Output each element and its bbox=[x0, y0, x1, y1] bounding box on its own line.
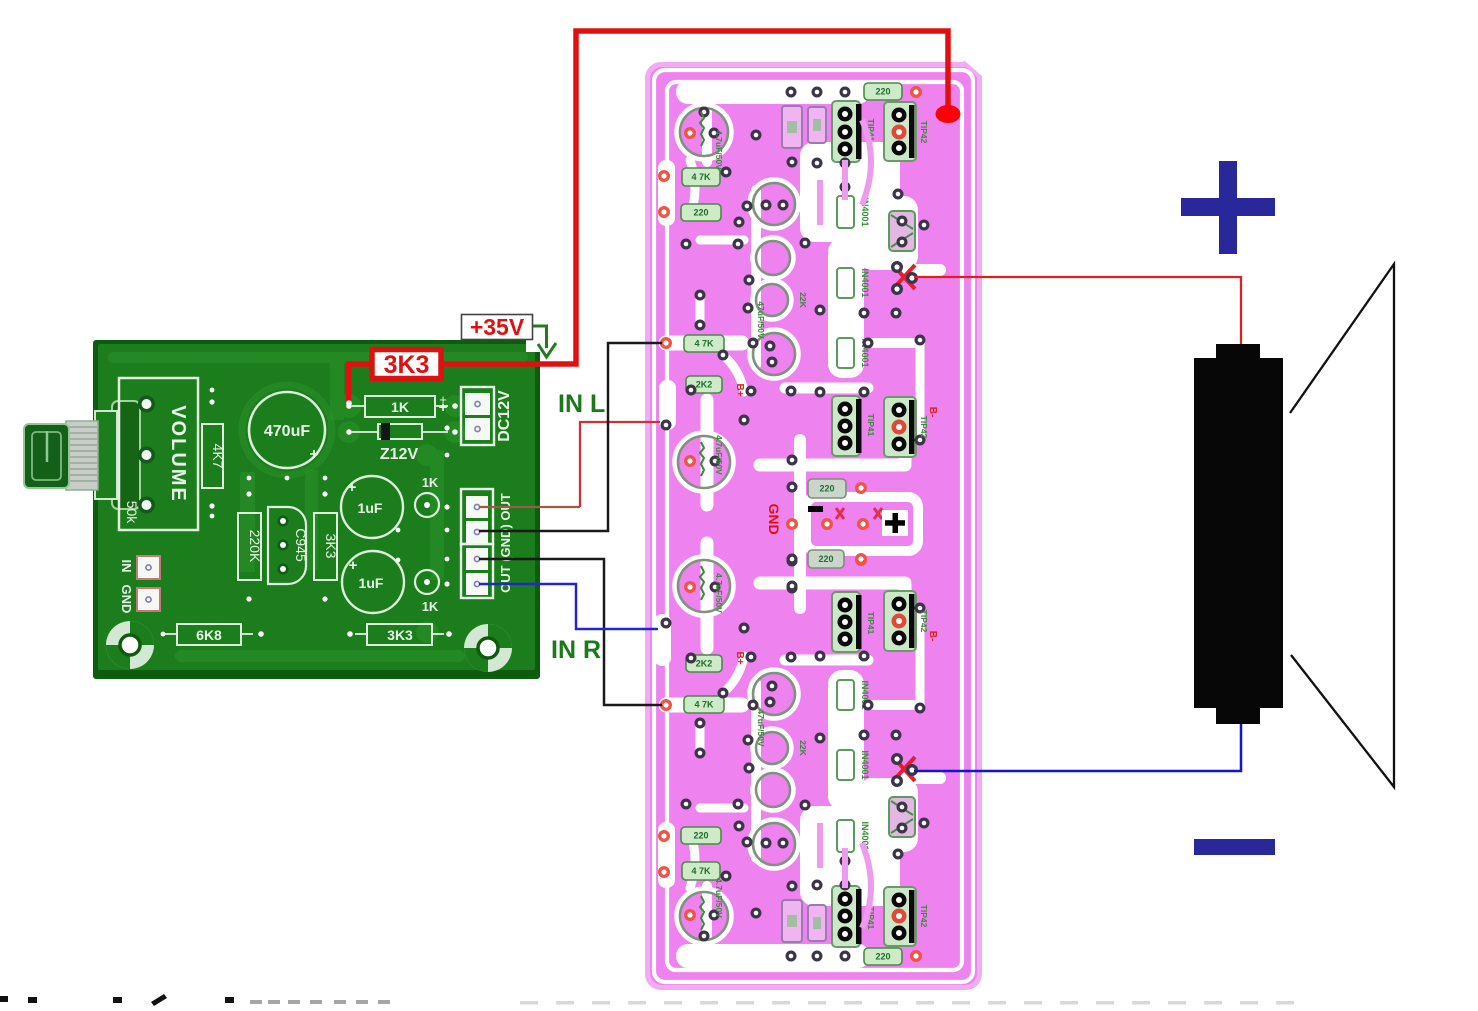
svg-text:IN R: IN R bbox=[551, 636, 601, 664]
svg-text:B-: B- bbox=[927, 631, 938, 642]
capacitor 470uF bbox=[249, 392, 325, 468]
svg-text:IN: IN bbox=[119, 560, 134, 573]
svg-text:4 7K: 4 7K bbox=[694, 700, 714, 710]
pink amplifier PCB board bbox=[645, 60, 984, 990]
svg-text:4.7uF/50V: 4.7uF/50V bbox=[714, 573, 724, 613]
green preamp PCB board bbox=[93, 340, 540, 679]
wire L ground (black) bbox=[479, 343, 662, 531]
wire speaker + (red) bbox=[914, 277, 1241, 346]
svg-text:4 7K: 4 7K bbox=[691, 172, 711, 182]
copper traces over routed areas bbox=[820, 120, 871, 928]
resistor 1K (mid lower) bbox=[415, 570, 439, 614]
svg-text:+: + bbox=[439, 392, 447, 407]
svg-text:4.7uF/50V: 4.7uF/50V bbox=[714, 130, 724, 170]
potentiometer VR1 50K volume bbox=[24, 401, 140, 509]
connector OUT (GND) OUT bbox=[444, 489, 513, 598]
left edge wire pad slots bbox=[658, 160, 675, 226]
speaker terminal - bbox=[1194, 839, 1275, 855]
wire speaker - (blue) bbox=[914, 720, 1241, 771]
svg-text:TIP42: TIP42 bbox=[919, 121, 929, 144]
svg-text:B+: B+ bbox=[734, 383, 745, 396]
resistor 1K (top) bbox=[346, 396, 458, 417]
svg-text:4.7uF/50V: 4.7uF/50V bbox=[714, 878, 724, 918]
svg-text:+: + bbox=[349, 557, 358, 574]
red marked pads bbox=[658, 86, 922, 962]
svg-text:C945: C945 bbox=[293, 528, 309, 562]
minus mark (speaker - net) bbox=[808, 506, 823, 512]
svg-text:4.7uF/50V: 4.7uF/50V bbox=[714, 435, 724, 475]
mounting hole right bbox=[464, 624, 512, 672]
diode pair (right column) bbox=[889, 211, 915, 251]
svg-text:1K: 1K bbox=[422, 475, 439, 490]
svg-text:47uF/50V: 47uF/50V bbox=[756, 301, 766, 339]
resistor 1K (mid upper) bbox=[415, 475, 439, 517]
resistor 6K8 bbox=[165, 624, 264, 645]
svg-text:47uF/50V: 47uF/50V bbox=[756, 709, 766, 747]
svg-text:4 7K: 4 7K bbox=[694, 339, 714, 349]
resistor 4K7 bbox=[202, 399, 226, 508]
svg-text:1K: 1K bbox=[422, 599, 439, 614]
output transistors (circle outlines) bbox=[675, 105, 798, 943]
svg-text:Z12V: Z12V bbox=[380, 446, 419, 463]
wire R ground (black) bbox=[479, 559, 662, 705]
svg-text:GND: GND bbox=[766, 503, 782, 534]
green PCB stray lead pads bbox=[161, 388, 450, 637]
svg-text:220: 220 bbox=[818, 554, 833, 564]
small resistors (violet outline) bbox=[782, 106, 802, 148]
svg-text:VOLUME: VOLUME bbox=[167, 405, 189, 503]
diodes IN4001 bbox=[837, 196, 854, 228]
TIP power transistors Q (3-pad groups) bbox=[832, 101, 862, 162]
svg-text:220: 220 bbox=[875, 952, 890, 962]
svg-text:50k: 50k bbox=[124, 501, 140, 525]
svg-text:2K2: 2K2 bbox=[696, 659, 713, 669]
connector IN GND bbox=[119, 556, 160, 613]
arrow from +35V to board (green) bbox=[533, 326, 547, 348]
svg-text:IN4001: IN4001 bbox=[860, 268, 870, 297]
potentiometer silkscreen VOLUME box bbox=[119, 378, 198, 530]
svg-text:IN L: IN L bbox=[558, 390, 605, 418]
svg-text:3K3: 3K3 bbox=[387, 627, 413, 643]
svg-text:TIP42: TIP42 bbox=[919, 416, 929, 439]
svg-text:1uF: 1uF bbox=[359, 575, 384, 591]
mounting hole left bbox=[106, 621, 154, 669]
svg-text:TIP42: TIP42 bbox=[919, 905, 929, 928]
svg-text:220K: 220K bbox=[247, 530, 263, 563]
speaker terminal + bbox=[1181, 161, 1275, 254]
label +35V bbox=[462, 314, 533, 340]
svg-text:+: + bbox=[309, 446, 318, 463]
speaker output pads OUT+ / OUT- bbox=[891, 261, 918, 295]
svg-text:TIP42: TIP42 bbox=[919, 610, 929, 633]
svg-text:4K7: 4K7 bbox=[210, 444, 226, 469]
svg-text:220: 220 bbox=[693, 208, 708, 218]
svg-text:22K: 22K bbox=[798, 740, 808, 756]
zener diode Z12V bbox=[346, 423, 458, 463]
svg-text:22K: 22K bbox=[798, 292, 808, 308]
svg-text:1uF: 1uF bbox=[358, 500, 383, 516]
node GND (centre) bbox=[766, 503, 882, 591]
svg-text:+35V: +35V bbox=[470, 314, 525, 340]
svg-text:IN4001: IN4001 bbox=[860, 750, 870, 779]
labelled resistors on amp board bbox=[682, 168, 720, 186]
resistor 3K3 (vertical) bbox=[314, 491, 339, 601]
svg-text:3K3: 3K3 bbox=[323, 534, 339, 559]
svg-text:220: 220 bbox=[819, 484, 834, 494]
svg-text:TIP41: TIP41 bbox=[866, 612, 876, 635]
svg-text:3K3: 3K3 bbox=[384, 351, 430, 379]
resistor 220K bbox=[238, 491, 263, 601]
resistor 3K3 callout (red box) bbox=[372, 350, 441, 380]
svg-text:6K8: 6K8 bbox=[196, 627, 222, 643]
svg-text:B-: B- bbox=[927, 407, 938, 418]
wire IN L signal (dark red) bbox=[479, 506, 580, 508]
svg-text:+: + bbox=[348, 479, 357, 496]
svg-text:220: 220 bbox=[875, 87, 890, 97]
wire IN R signal (blue) bbox=[479, 584, 658, 629]
routed channels (white) bbox=[666, 92, 940, 956]
solder blob +35V on amp board bbox=[936, 105, 961, 123]
svg-text:B+: B+ bbox=[734, 651, 745, 664]
transistor C945 bbox=[268, 507, 309, 584]
plus mark (speaker + net) bbox=[882, 510, 908, 536]
speaker cone bbox=[1290, 264, 1394, 787]
svg-text:TIP41: TIP41 bbox=[866, 414, 876, 437]
svg-text:4 7K: 4 7K bbox=[691, 866, 711, 876]
speaker magnet/body bbox=[1194, 344, 1283, 724]
cropped caption text bbox=[0, 994, 234, 1006]
transistor leads marks bbox=[700, 112, 704, 930]
svg-text:220: 220 bbox=[693, 831, 708, 841]
capacitor C 1uF (lower) bbox=[342, 551, 404, 613]
wire +35V (thick red) bbox=[349, 31, 949, 403]
svg-text:470uF: 470uF bbox=[264, 423, 310, 440]
resistor 3K3 (bottom) bbox=[347, 624, 452, 645]
via / lead pads bbox=[661, 87, 930, 962]
svg-text:GND: GND bbox=[119, 585, 134, 614]
capacitor C 1uF (upper) bbox=[341, 476, 403, 538]
svg-text:2K2: 2K2 bbox=[696, 380, 713, 390]
svg-text:DC12V: DC12V bbox=[496, 390, 513, 442]
svg-text:1K: 1K bbox=[391, 399, 409, 415]
connector DC12V bbox=[439, 387, 513, 445]
